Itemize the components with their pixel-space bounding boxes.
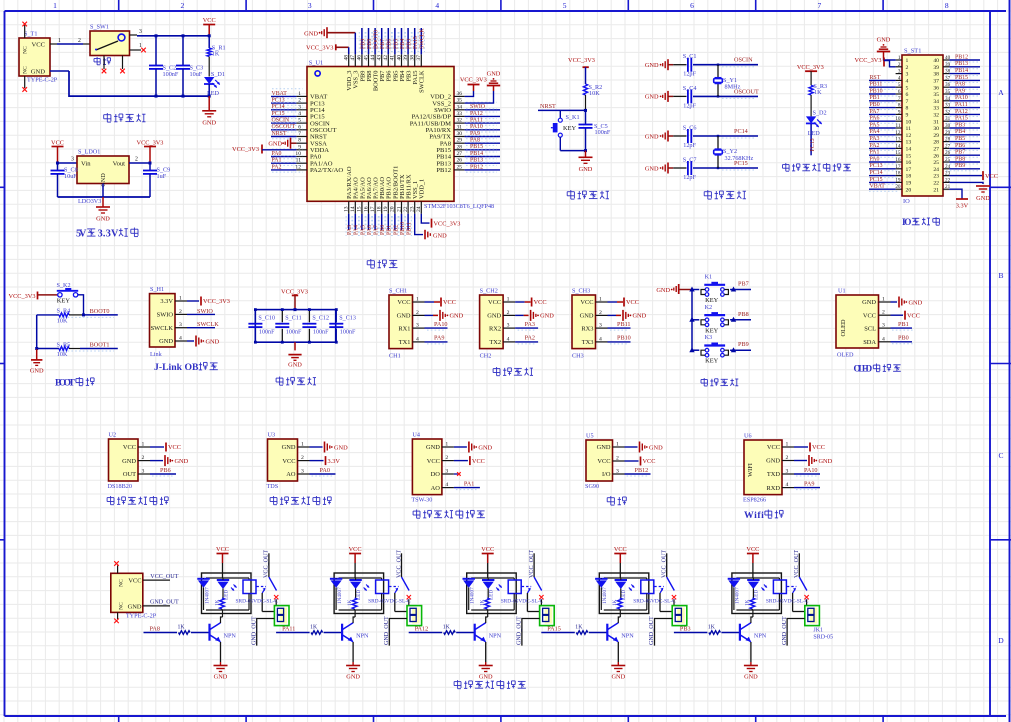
svg-text:VCC_3V3: VCC_3V3 — [281, 288, 308, 295]
svg-text:GND: GND — [540, 313, 554, 320]
svg-text:PB0: PB0 — [380, 225, 386, 235]
svg-text:S_CH2: S_CH2 — [480, 287, 498, 294]
svg-text:VCC_3V3: VCC_3V3 — [137, 140, 164, 147]
svg-text:16: 16 — [363, 206, 369, 212]
svg-text:PA11: PA11 — [282, 626, 295, 633]
svg-text:GND: GND — [877, 37, 891, 44]
svg-text:VCC_3V3: VCC_3V3 — [203, 298, 230, 305]
svg-text:1: 1 — [898, 55, 901, 61]
svg-text:23: 23 — [410, 206, 416, 212]
svg-text:PC14: PC14 — [870, 170, 883, 176]
svg-text:11: 11 — [296, 158, 302, 164]
svg-text:100nF: 100nF — [259, 330, 275, 336]
svg-text:20: 20 — [895, 184, 901, 190]
svg-text:VCC: VCC — [203, 17, 216, 24]
svg-text:39: 39 — [403, 55, 409, 61]
svg-text:GND: GND — [96, 216, 110, 223]
svg-text:U3: U3 — [268, 431, 276, 438]
svg-text:VCC_3V3: VCC_3V3 — [306, 45, 333, 52]
svg-text:7: 7 — [898, 96, 901, 102]
svg-text:39: 39 — [933, 65, 939, 71]
svg-text:VCC: VCC — [812, 444, 825, 451]
svg-text:PC13: PC13 — [870, 163, 883, 169]
svg-text:13: 13 — [344, 206, 350, 212]
svg-text:26: 26 — [457, 158, 463, 164]
svg-text:S_C4: S_C4 — [683, 85, 697, 92]
svg-text:TX1: TX1 — [399, 339, 411, 346]
svg-text:S_T1: S_T1 — [24, 31, 37, 38]
svg-text:26: 26 — [933, 153, 939, 159]
svg-text:31: 31 — [457, 124, 463, 130]
svg-text:1N4007: 1N4007 — [470, 587, 476, 604]
svg-text:10: 10 — [895, 116, 901, 122]
svg-text:10K: 10K — [57, 351, 68, 358]
svg-text:SWCLK: SWCLK — [197, 321, 219, 328]
svg-text:30: 30 — [457, 131, 463, 137]
svg-text:PA0: PA0 — [870, 156, 880, 162]
svg-text:4: 4 — [435, 1, 439, 10]
svg-text:10uF: 10uF — [64, 173, 77, 180]
svg-text:2: 2 — [786, 455, 789, 461]
svg-text:1N4007: 1N4007 — [602, 587, 608, 604]
svg-text:PA10: PA10 — [804, 467, 818, 474]
svg-text:GND: GND — [645, 165, 659, 172]
svg-text:GND: GND — [122, 458, 136, 465]
svg-text:31: 31 — [933, 119, 939, 125]
svg-text:PC13: PC13 — [810, 138, 816, 151]
svg-text:PB8: PB8 — [955, 156, 965, 162]
svg-text:2: 2 — [507, 310, 510, 316]
svg-text:1K: 1K — [214, 599, 220, 606]
svg-text:100nF: 100nF — [340, 330, 356, 336]
svg-text:PA3: PA3 — [347, 225, 353, 235]
svg-text:1K: 1K — [745, 599, 751, 606]
svg-text:GND: GND — [268, 140, 282, 147]
svg-text:PA6: PA6 — [870, 116, 880, 122]
svg-text:GND: GND — [633, 313, 647, 320]
svg-text:VDD_1: VDD_1 — [419, 179, 426, 199]
svg-text:12pF: 12pF — [683, 71, 696, 78]
svg-text:3: 3 — [906, 72, 909, 78]
svg-text:3: 3 — [616, 469, 619, 475]
svg-text:46: 46 — [357, 55, 363, 61]
svg-text:GND: GND — [976, 195, 990, 202]
svg-text:GND: GND — [862, 299, 876, 306]
svg-text:17: 17 — [906, 167, 912, 173]
svg-text:Link: Link — [150, 351, 163, 358]
svg-text:GND: GND — [31, 69, 46, 76]
svg-text:16: 16 — [895, 157, 901, 163]
svg-text:10K: 10K — [589, 90, 600, 97]
svg-text:PB6: PB6 — [160, 467, 171, 474]
svg-text:1K: 1K — [708, 625, 716, 631]
svg-text:PB13: PB13 — [955, 61, 968, 67]
svg-text:2: 2 — [179, 309, 182, 315]
svg-text:4: 4 — [179, 336, 182, 342]
svg-text:23: 23 — [933, 174, 939, 180]
svg-text:4: 4 — [786, 482, 789, 488]
svg-text:VCC_OUT: VCC_OUT — [150, 574, 178, 580]
svg-text:K1: K1 — [705, 274, 713, 281]
svg-text:PA12: PA12 — [470, 111, 483, 117]
svg-text:1: 1 — [445, 442, 448, 448]
svg-text:19: 19 — [383, 206, 389, 212]
svg-text:Vin: Vin — [81, 161, 91, 168]
svg-text:44: 44 — [370, 55, 376, 61]
svg-text:3: 3 — [599, 323, 602, 329]
svg-text:4: 4 — [898, 75, 901, 81]
svg-text:1: 1 — [507, 297, 510, 303]
svg-text:1N4007: 1N4007 — [204, 587, 210, 604]
svg-text:U5: U5 — [586, 432, 594, 439]
svg-text:VCC: VCC — [427, 458, 440, 465]
svg-text:1K: 1K — [480, 599, 486, 606]
svg-text:15: 15 — [906, 153, 912, 159]
svg-text:6: 6 — [906, 92, 909, 98]
svg-text:PB3: PB3 — [680, 626, 691, 633]
svg-text:TX2: TX2 — [489, 339, 501, 346]
svg-text:SCL: SCL — [864, 325, 876, 332]
svg-text:PA11: PA11 — [470, 118, 483, 124]
svg-text:SWIO: SWIO — [197, 308, 213, 315]
svg-text:22: 22 — [403, 206, 409, 212]
svg-text:KEY: KEY — [563, 125, 577, 132]
svg-text:PB5: PB5 — [955, 136, 965, 142]
svg-text:S_D2: S_D2 — [813, 109, 827, 116]
svg-text:19: 19 — [906, 181, 912, 187]
svg-text:NPN: NPN — [224, 633, 237, 640]
svg-text:2: 2 — [78, 38, 81, 44]
svg-text:VCC: VCC — [643, 458, 656, 465]
svg-text:CH1: CH1 — [389, 353, 401, 360]
svg-text:GND: GND — [175, 458, 189, 465]
svg-text:AO: AO — [286, 471, 296, 478]
svg-text:TDS: TDS — [267, 483, 279, 490]
svg-text:LED: LED — [808, 130, 821, 137]
svg-text:RX3: RX3 — [581, 325, 593, 332]
svg-text:U4: U4 — [412, 431, 420, 438]
svg-text:13: 13 — [895, 137, 901, 143]
svg-text:VCC: VCC — [397, 299, 410, 306]
svg-text:28: 28 — [457, 144, 463, 150]
svg-text:1: 1 — [786, 442, 789, 448]
svg-text:35: 35 — [457, 98, 463, 104]
svg-text:PC15: PC15 — [870, 177, 883, 183]
svg-text:PB13: PB13 — [470, 158, 483, 164]
svg-text:GND: GND — [30, 368, 44, 375]
svg-text:VCC: VCC — [863, 312, 876, 319]
svg-text:1N4007: 1N4007 — [337, 587, 343, 604]
svg-text:28: 28 — [933, 140, 939, 146]
svg-text:6: 6 — [690, 1, 694, 10]
svg-text:12pF: 12pF — [683, 142, 696, 149]
svg-text:40: 40 — [396, 55, 402, 61]
svg-text:IO: IO — [902, 217, 911, 227]
svg-text:PB12: PB12 — [470, 164, 483, 170]
svg-text:PA1: PA1 — [464, 480, 474, 487]
svg-text:PB12: PB12 — [436, 167, 451, 174]
svg-text:PB0: PB0 — [870, 102, 880, 108]
svg-text:CH2: CH2 — [480, 353, 492, 360]
svg-text:VCC: VCC — [31, 42, 45, 49]
svg-text:12: 12 — [895, 130, 901, 136]
svg-text:SDA: SDA — [863, 339, 876, 346]
svg-text:100nF: 100nF — [313, 330, 329, 336]
svg-text:GND: GND — [597, 444, 611, 451]
svg-text:GND: GND — [645, 94, 659, 101]
svg-text:VCC_3V3: VCC_3V3 — [9, 293, 36, 300]
svg-text:GND_OUT: GND_OUT — [251, 616, 257, 645]
svg-text:GND: GND — [206, 338, 220, 345]
svg-text:TX3: TX3 — [582, 339, 594, 346]
svg-text:VCC: VCC — [746, 546, 759, 553]
svg-text:15: 15 — [357, 206, 363, 212]
svg-text:3.3V: 3.3V — [160, 298, 173, 305]
svg-text:ESP8266: ESP8266 — [743, 497, 766, 504]
svg-text:GND_OUT: GND_OUT — [517, 616, 523, 645]
svg-text:VCC_3V3: VCC_3V3 — [797, 64, 824, 71]
svg-text:1: 1 — [906, 58, 909, 64]
svg-text:GND_OUT: GND_OUT — [150, 600, 179, 606]
svg-text:RX2: RX2 — [489, 325, 501, 332]
svg-text:VCC: VCC — [767, 444, 780, 451]
svg-text:SRD-05VDC-SL-C: SRD-05VDC-SL-C — [236, 599, 279, 605]
svg-text:3.3V: 3.3V — [328, 458, 341, 465]
svg-text:S_C1: S_C1 — [683, 53, 697, 60]
svg-text:37: 37 — [933, 79, 939, 85]
svg-text:SWIO: SWIO — [157, 312, 174, 319]
svg-text:AO: AO — [431, 485, 441, 492]
svg-text:DS18B20: DS18B20 — [108, 483, 132, 490]
svg-text:9: 9 — [906, 113, 909, 119]
svg-text:GND: GND — [478, 444, 492, 451]
svg-text:11: 11 — [896, 123, 901, 129]
svg-text:VCC: VCC — [614, 546, 627, 553]
svg-text:PB11: PB11 — [617, 321, 631, 328]
svg-text:33: 33 — [933, 106, 939, 112]
svg-text:KEY: KEY — [705, 358, 719, 365]
svg-text:PA10: PA10 — [434, 321, 448, 328]
svg-text:BOOT1: BOOT1 — [90, 342, 110, 349]
svg-text:NPN: NPN — [489, 633, 502, 640]
svg-text:100nF: 100nF — [286, 330, 302, 336]
svg-text:CH3: CH3 — [572, 353, 584, 360]
svg-text:NC: NC — [23, 46, 29, 54]
svg-text:GND: GND — [487, 71, 501, 78]
svg-text:4: 4 — [416, 336, 419, 342]
svg-text:GND: GND — [649, 444, 663, 451]
svg-text:25: 25 — [457, 164, 463, 170]
svg-text:2: 2 — [898, 62, 901, 68]
svg-text:PA10: PA10 — [955, 95, 968, 101]
svg-text:VCC: VCC — [985, 173, 998, 180]
svg-text:1uF: 1uF — [157, 173, 167, 180]
svg-text:1K: 1K — [814, 89, 822, 96]
svg-text:PB12: PB12 — [635, 467, 649, 474]
svg-text:13: 13 — [906, 140, 912, 146]
svg-text:VCC: VCC — [349, 546, 362, 553]
svg-text:PB3: PB3 — [955, 122, 965, 128]
svg-text:GND: GND — [744, 674, 758, 681]
svg-text:33: 33 — [457, 111, 463, 117]
svg-text:VCC: VCC — [488, 299, 501, 306]
svg-text:3: 3 — [308, 1, 312, 10]
svg-text:1K: 1K — [612, 599, 618, 606]
svg-text:PA5: PA5 — [360, 225, 366, 235]
svg-text:7: 7 — [818, 1, 822, 10]
svg-text:KEY: KEY — [57, 298, 71, 305]
svg-text:24: 24 — [933, 167, 939, 173]
svg-text:NC: NC — [119, 579, 125, 587]
svg-text:36: 36 — [933, 85, 939, 91]
svg-text:PB9: PB9 — [955, 163, 965, 169]
svg-text:PA15: PA15 — [413, 36, 419, 49]
svg-text:PB10: PB10 — [617, 335, 631, 342]
svg-text:43: 43 — [377, 55, 383, 61]
svg-text:S_C11: S_C11 — [285, 316, 301, 322]
svg-text:LDO3V3: LDO3V3 — [78, 198, 101, 205]
svg-text:GND: GND — [426, 444, 440, 451]
svg-text:4: 4 — [445, 482, 448, 488]
svg-text:2: 2 — [142, 455, 145, 461]
svg-text:3: 3 — [507, 323, 510, 329]
svg-text:3: 3 — [142, 469, 145, 475]
svg-text:3: 3 — [298, 104, 301, 110]
svg-text:1: 1 — [882, 297, 885, 303]
svg-text:NPN: NPN — [356, 633, 369, 640]
svg-text:29: 29 — [933, 133, 939, 139]
svg-text:9: 9 — [298, 144, 301, 150]
svg-text:16: 16 — [906, 160, 912, 166]
svg-text:30: 30 — [933, 126, 939, 132]
svg-text:NPN: NPN — [621, 633, 634, 640]
svg-text:PB14: PB14 — [955, 68, 968, 74]
svg-text:PA12: PA12 — [415, 626, 429, 633]
svg-text:TYPE-C-2P: TYPE-C-2P — [27, 77, 58, 84]
svg-text:GND: GND — [346, 674, 360, 681]
svg-text:19: 19 — [895, 177, 901, 183]
svg-text:SRD-05VDC-SL-C: SRD-05VDC-SL-C — [766, 599, 809, 605]
svg-text:D: D — [998, 636, 1004, 645]
svg-text:8: 8 — [906, 106, 909, 112]
svg-text:100nF: 100nF — [163, 71, 179, 78]
svg-text:PB10: PB10 — [870, 88, 883, 94]
svg-text:JK1: JK1 — [813, 628, 823, 634]
svg-text:S_H1: S_H1 — [150, 286, 164, 293]
svg-text:PA7: PA7 — [374, 225, 380, 235]
svg-text:PA2: PA2 — [525, 335, 535, 342]
svg-text:S_CH1: S_CH1 — [389, 287, 407, 294]
svg-text:GND_OUT: GND_OUT — [782, 616, 788, 645]
svg-text:15: 15 — [895, 150, 901, 156]
svg-text:RST: RST — [870, 75, 881, 81]
svg-text:TYPE-C-2P: TYPE-C-2P — [126, 613, 157, 620]
svg-text:11: 11 — [906, 126, 912, 132]
svg-text:2: 2 — [599, 310, 602, 316]
svg-text:SWCLK: SWCLK — [420, 28, 426, 49]
svg-text:17: 17 — [370, 206, 376, 212]
svg-text:Wifi: Wifi — [744, 510, 764, 521]
svg-text:PB1: PB1 — [898, 321, 909, 328]
svg-text:PB1: PB1 — [870, 95, 880, 101]
svg-text:PA2: PA2 — [272, 164, 282, 170]
svg-text:GND: GND — [128, 603, 142, 610]
svg-text:PB15: PB15 — [955, 75, 968, 81]
svg-text:S_LDO1: S_LDO1 — [78, 149, 100, 156]
svg-text:SRD-05VDC-SL-C: SRD-05VDC-SL-C — [501, 599, 544, 605]
svg-text:GND: GND — [479, 674, 493, 681]
svg-text:PA8: PA8 — [150, 626, 160, 633]
svg-text:GND: GND — [304, 31, 318, 38]
svg-text:12pF: 12pF — [683, 174, 696, 181]
svg-text:PB8: PB8 — [738, 311, 749, 318]
svg-text:OLED: OLED — [837, 352, 854, 359]
svg-text:1K: 1K — [178, 625, 186, 631]
svg-text:14: 14 — [350, 206, 356, 212]
svg-text:12: 12 — [906, 133, 912, 139]
svg-text:PB2: PB2 — [393, 225, 399, 235]
svg-text:B: B — [998, 271, 1003, 280]
svg-text:PA7: PA7 — [870, 109, 880, 115]
svg-text:1: 1 — [53, 1, 57, 10]
svg-text:3: 3 — [445, 469, 448, 475]
svg-text:GND: GND — [202, 119, 216, 126]
svg-text:PB4: PB4 — [955, 129, 965, 135]
svg-text:2: 2 — [616, 456, 619, 462]
svg-text:GND: GND — [645, 62, 659, 69]
svg-text:SWCLK: SWCLK — [419, 70, 426, 93]
svg-text:1: 1 — [142, 442, 145, 448]
svg-text:S_R4: S_R4 — [57, 308, 71, 315]
svg-text:GND: GND — [450, 313, 464, 320]
svg-text:GND: GND — [433, 232, 447, 239]
svg-text:GND: GND — [579, 166, 593, 173]
svg-text:SRD-05VDC-SL-C: SRD-05VDC-SL-C — [368, 599, 411, 605]
svg-text:1: 1 — [179, 296, 182, 302]
svg-text:PA4: PA4 — [354, 225, 360, 235]
svg-text:4: 4 — [906, 79, 909, 85]
svg-text:WIFI: WIFI — [747, 463, 754, 477]
svg-text:BOOT0: BOOT0 — [90, 308, 110, 315]
svg-text:U2: U2 — [109, 431, 117, 438]
svg-text:2: 2 — [181, 1, 185, 10]
svg-text:17: 17 — [895, 164, 901, 170]
svg-text:S_C7: S_C7 — [683, 157, 697, 164]
svg-text:SWCLK: SWCLK — [151, 325, 174, 332]
svg-text:GND: GND — [214, 674, 228, 681]
svg-text:VCC_3V3: VCC_3V3 — [434, 221, 461, 228]
svg-text:VCC: VCC — [168, 444, 181, 451]
svg-text:TSW-30: TSW-30 — [411, 497, 432, 504]
svg-text:NRST: NRST — [272, 131, 287, 137]
svg-text:NRST: NRST — [540, 103, 556, 110]
svg-text:PB9: PB9 — [738, 341, 749, 348]
svg-text:GND: GND — [656, 287, 670, 294]
svg-text:PA9: PA9 — [955, 88, 965, 94]
svg-text:Vout: Vout — [113, 161, 126, 168]
svg-text:40: 40 — [933, 58, 939, 64]
svg-text:1N4007: 1N4007 — [735, 587, 741, 604]
svg-text:GND: GND — [397, 313, 411, 320]
svg-text:GND: GND — [282, 444, 296, 451]
svg-text:U1: U1 — [838, 287, 846, 294]
svg-text:21: 21 — [396, 206, 402, 212]
svg-text:41: 41 — [390, 55, 396, 61]
svg-text:PA0: PA0 — [320, 467, 330, 474]
svg-text:6: 6 — [898, 89, 901, 95]
svg-text:PA9: PA9 — [434, 335, 444, 342]
svg-text:J-Link OB: J-Link OB — [154, 362, 199, 373]
